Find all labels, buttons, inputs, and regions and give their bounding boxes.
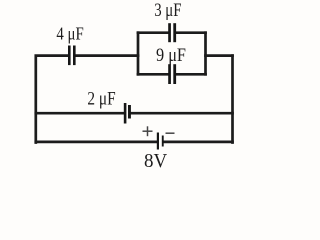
capacitor C2 3uF plates [168, 23, 176, 42]
battery minus sign [166, 132, 175, 134]
wire: box right edge [204, 33, 207, 75]
svg-text:4 μF: 4 μF [56, 23, 83, 43]
wire: box bottom edge left of 9uF [138, 73, 168, 76]
wire: top feed left segment (corner to 4uF) [36, 56, 68, 143]
battery B1 negative plate [162, 136, 164, 147]
wire: exit from box to right vertical [206, 54, 233, 57]
wire: middle right segment (2uF to right vertical) [131, 112, 233, 115]
svg-text:8V: 8V [144, 151, 167, 171]
wire: middle left segment (to 2uF) [36, 112, 124, 115]
wire: box top edge left of 3uF [138, 31, 168, 34]
wire: bottom right segment (battery to right vertical) [164, 141, 233, 144]
wire: box left edge [137, 33, 140, 75]
wire: feed from 4uF to box left edge [76, 54, 139, 57]
wire: box bottom edge right of 9uF [176, 73, 205, 76]
svg-text:9 μF: 9 μF [156, 45, 186, 66]
wire: bottom left segment (to battery) [36, 141, 157, 144]
capacitor C4 2uF plates [124, 103, 131, 124]
capacitor C3 9uF plates [168, 64, 176, 84]
battery B1 positive plate [157, 133, 159, 150]
svg-text:3 μF: 3 μF [154, 0, 181, 21]
svg-text:2 μF: 2 μF [87, 88, 115, 109]
wire: box top edge right of 3uF [176, 31, 205, 34]
capacitor C1 4uF plates [68, 46, 76, 66]
battery plus sign [143, 126, 153, 136]
wire: right vertical [231, 56, 234, 143]
